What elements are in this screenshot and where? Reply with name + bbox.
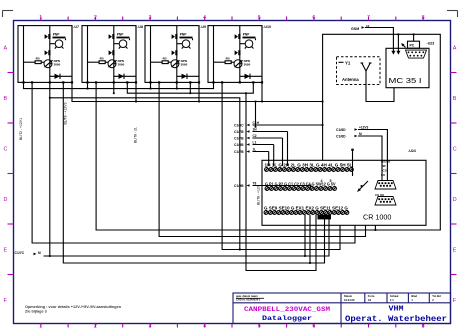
wire right rail	[261, 26, 263, 83]
datalogger U24 CR 1000	[262, 160, 426, 225]
svg-text:3090: 3090	[54, 63, 61, 67]
wire rail R1 to +12V loop	[96, 34, 440, 230]
svg-text:2: 2	[94, 324, 97, 328]
svg-text:7: 7	[367, 15, 370, 21]
sensor interface block -U7	[18, 26, 72, 83]
wire stub	[261, 82, 263, 101]
wire center rail	[176, 26, 178, 83]
transistor Q1 of -U9	[182, 40, 190, 48]
svg-text:C: C	[4, 147, 8, 153]
terminal screws row	[265, 187, 336, 191]
diode D1 of -U9	[182, 74, 188, 79]
junction node	[31, 81, 33, 83]
wire rail R5 net C1/7C	[44, 215, 330, 256]
wire rail R6	[63, 82, 324, 263]
wire stub	[113, 82, 115, 93]
connector DB9 trapezoid	[406, 50, 427, 58]
svg-text:-U10: -U10	[263, 25, 271, 29]
svg-text:D: D	[453, 197, 457, 203]
sensor interface block -U10	[208, 26, 262, 83]
svg-text:-U8: -U8	[137, 25, 143, 29]
wire stub	[189, 82, 191, 93]
svg-text:1: 1	[39, 15, 42, 21]
svg-text:-R5: -R5	[35, 57, 40, 61]
svg-text:6: 6	[312, 324, 315, 328]
wire center rail	[113, 26, 115, 83]
wire bus J2	[127, 82, 253, 93]
junction node	[158, 81, 160, 83]
wire	[50, 63, 52, 65]
title block	[233, 293, 451, 324]
junction node	[149, 81, 151, 83]
junction node	[189, 81, 191, 83]
svg-text:4: 4	[321, 179, 323, 183]
sensor interface block -U8	[82, 26, 136, 83]
svg-text:C1/7B: C1/7B	[234, 130, 244, 134]
wire	[358, 130, 387, 182]
wire left rail	[23, 26, 25, 83]
svg-text:C2: C2	[253, 134, 257, 138]
svg-text:A: A	[4, 46, 8, 52]
svg-text:1:1: 1:1	[390, 298, 394, 302]
transistor Q2 of -U7	[44, 60, 52, 68]
transistor Q2 of -U9	[171, 60, 179, 68]
transistor Q2 of -U10	[234, 60, 242, 68]
wire	[65, 38, 67, 40]
junction node	[49, 81, 51, 83]
wire drop to C1/6C input	[255, 102, 257, 127]
GSM modem U22 MC 35 I	[386, 48, 429, 87]
antenna assembly box	[337, 57, 381, 85]
wire GSM to modem	[365, 28, 393, 53]
terminal screws row	[265, 168, 354, 172]
diode D1 of -U8	[119, 74, 125, 79]
svg-text:-R5: -R5	[99, 57, 104, 61]
svg-text:gew. datum naam: gew. datum naam	[236, 294, 258, 298]
connector pin K1 of -U9	[172, 34, 178, 39]
connector pin K2 of -U7	[45, 50, 51, 55]
wire center rail	[239, 26, 241, 83]
svg-text:-U24: -U24	[408, 149, 416, 153]
wire	[192, 38, 194, 40]
svg-text:4: 4	[203, 15, 206, 21]
svg-text:PNP: PNP	[117, 32, 124, 36]
junction node	[71, 81, 73, 83]
wire stub	[135, 82, 137, 101]
svg-text:A: A	[453, 46, 457, 52]
diode D1 of -U7	[55, 74, 61, 79]
wire bus J4 antenna-loop rail	[72, 82, 323, 101]
svg-text:C1/9B: C1/9B	[234, 184, 244, 188]
junction node	[212, 81, 214, 83]
transistor Q2 of -U8	[108, 60, 116, 68]
svg-text:T8: T8	[253, 181, 257, 185]
wire +12V to modem	[397, 34, 399, 52]
svg-text:2: 2	[94, 15, 97, 21]
antenna symbol	[365, 70, 367, 85]
svg-text:3090: 3090	[244, 63, 251, 67]
svg-text:Form.: Form.	[368, 294, 375, 298]
svg-text:4: 4	[203, 324, 206, 328]
junction node	[86, 81, 88, 83]
connector pin K2 of -U9	[172, 50, 178, 55]
svg-text:BL/T2 - +12V1: BL/T2 - +12V1	[19, 118, 23, 140]
svg-text:1: 1	[39, 324, 42, 328]
svg-text:CANPBELL_230VAC_GSM: CANPBELL_230VAC_GSM	[244, 306, 330, 313]
svg-text:CS: CS	[383, 169, 387, 173]
svg-text:8: 8	[422, 15, 425, 21]
wire bus J3	[50, 98, 240, 250]
corner trim marks	[3, 11, 458, 18]
wire	[177, 63, 179, 65]
svg-text:C1/6D: C1/6D	[336, 128, 346, 132]
junction node	[176, 81, 178, 83]
svg-text:L1: L1	[253, 140, 257, 144]
svg-text:Datum: Datum	[344, 294, 353, 298]
svg-text:Schaal: Schaal	[390, 294, 399, 298]
svg-text:E: E	[453, 248, 457, 254]
wire	[50, 75, 72, 77]
power connector PWR	[318, 215, 332, 220]
junction node	[113, 81, 115, 83]
svg-text:B: B	[4, 96, 8, 102]
svg-text:5: 5	[258, 15, 261, 21]
transistor Q1 of -U7	[55, 40, 63, 48]
wire	[240, 75, 262, 77]
svg-text:Datalogger: Datalogger	[262, 315, 312, 322]
wire left rail	[87, 26, 89, 83]
wire	[177, 75, 199, 77]
svg-text:5: 5	[258, 324, 261, 328]
svg-text:Operat. Waterbeheer: Operat. Waterbeheer	[345, 314, 447, 324]
svg-text:-U7: -U7	[73, 25, 79, 29]
svg-text:PNP: PNP	[243, 32, 250, 36]
wire	[114, 75, 136, 77]
svg-text:PNP: PNP	[53, 32, 60, 36]
svg-text:G P1 G P2 G C1 C2 C3 C4 G SW12: G P1 G P2 G C1 C2 C3 C4 G SW12 G 5V	[265, 182, 336, 187]
svg-text:CR 1000: CR 1000	[363, 213, 391, 222]
wire rail to CR power A	[246, 93, 316, 270]
svg-text:G SE9 SE10 G EX1 EX2 G SE11 SE: G SE9 SE10 G EX1 EX2 G SE11 SE12 G	[264, 205, 348, 210]
svg-text:5: 5	[330, 179, 332, 183]
svg-text:C1/7B: C1/7B	[234, 136, 244, 140]
wire rail R4	[222, 82, 340, 249]
cable arrow	[351, 149, 353, 151]
cable arrow	[402, 44, 406, 48]
svg-text:BL/T8 - +12V3: BL/T8 - +12V3	[64, 102, 68, 124]
wire right rail	[71, 26, 73, 83]
svg-text:-U23: -U23	[427, 42, 435, 46]
connector pin K1 of -U8	[109, 34, 115, 39]
wire rail R3	[32, 82, 355, 243]
connector pin K2 of -U8	[109, 50, 115, 55]
svg-text:C1/6B: C1/6B	[234, 143, 244, 147]
svg-text:C: C	[453, 147, 457, 153]
svg-text:Tot.bld: Tot.bld	[432, 294, 441, 298]
svg-text:3090: 3090	[181, 63, 188, 67]
transistor Q1 of -U10	[245, 40, 253, 48]
junction node	[261, 81, 263, 83]
svg-text:-U9: -U9	[200, 25, 206, 29]
wire CR power entry 1	[374, 225, 376, 230]
svg-text:PNP: PNP	[180, 32, 187, 36]
wire right rail	[198, 26, 200, 83]
wire	[88, 61, 100, 63]
wire	[214, 61, 226, 63]
svg-text:9F: 9F	[383, 164, 387, 168]
connector CS I/O	[375, 197, 396, 206]
junction node	[198, 81, 200, 83]
wire stub	[176, 82, 178, 88]
svg-text:6: 6	[312, 15, 315, 21]
svg-text:-R5: -R5	[225, 57, 230, 61]
svg-text:D: D	[4, 197, 8, 203]
wire	[114, 63, 116, 65]
wire stub	[150, 82, 152, 88]
connector RS232 (DB9)	[375, 181, 396, 190]
svg-text:C1/7B: C1/7B	[234, 150, 244, 154]
junction node	[62, 81, 64, 83]
wire	[24, 61, 36, 63]
sensor interface block -U9	[145, 26, 199, 83]
antenna Y1	[339, 61, 344, 63]
wire DB9 to +12V loop	[413, 34, 415, 41]
svg-text:3: 3	[149, 15, 152, 21]
wire	[255, 38, 257, 40]
svg-text:-R5: -R5	[162, 57, 167, 61]
svg-text:VHM: VHM	[389, 306, 404, 314]
wire drop center rail block1	[49, 82, 51, 256]
svg-text:Y1: Y1	[345, 60, 351, 65]
connector pin K1 of -U10	[235, 34, 241, 39]
connector pin K2 of -U10	[235, 50, 241, 55]
frame zone numbers	[39, 15, 424, 328]
svg-text:C1/6C: C1/6C	[234, 123, 244, 127]
svg-text:8: 8	[422, 324, 425, 328]
junction node	[95, 81, 97, 83]
wire left rail	[213, 26, 215, 83]
svg-text:M: M	[38, 251, 41, 255]
wire left rail	[150, 26, 152, 83]
junction node	[221, 81, 223, 83]
connector pin K1 of -U7	[45, 34, 51, 39]
svg-text:C1H: C1H	[253, 121, 260, 125]
junction node	[252, 81, 254, 83]
svg-text:7: 7	[367, 324, 370, 328]
svg-text:19-04-06: 19-04-06	[344, 298, 355, 302]
wire stub	[198, 82, 200, 101]
svg-text:E: E	[4, 248, 8, 254]
svg-text:1L: 1L	[253, 147, 257, 151]
junction node	[239, 81, 241, 83]
svg-text:Opmerking : voor details +12V-: Opmerking : voor details +12V-/+5V-/0V-a…	[25, 305, 122, 309]
svg-text:C1/7C: C1/7C	[15, 251, 25, 255]
connector X1 DB9 to PC	[408, 41, 420, 48]
svg-text:B: B	[453, 96, 457, 102]
terminal screws row	[264, 211, 349, 215]
svg-text:1H: 1H	[253, 127, 258, 131]
transistor Q1 of -U8	[119, 40, 127, 48]
wire	[151, 61, 163, 63]
frame reference ticks top/bottom	[41, 17, 423, 328]
wire antenna feed	[366, 85, 394, 102]
junction node	[126, 81, 128, 83]
svg-text:1H 1L G 2H 2L G 3H 3L G 4H 4L: 1H 1L G 2H 2L G 3H 3L G 4H 4L G 5H 5L	[265, 163, 353, 168]
svg-text:BL/T8 - 2L: BL/T8 - 2L	[134, 127, 138, 143]
svg-text:C1/6D: C1/6D	[336, 135, 346, 139]
svg-text:BL/T8 - +12V: BL/T8 - +12V	[257, 184, 261, 205]
wire	[129, 38, 131, 40]
svg-text:GSM: GSM	[351, 27, 359, 31]
junction node	[22, 81, 24, 83]
junction node	[135, 81, 137, 83]
wire center rail	[49, 26, 51, 83]
svg-text:PC: PC	[410, 44, 415, 48]
wire bus J1	[24, 82, 214, 88]
svg-text:Antenna: Antenna	[342, 77, 359, 82]
wire	[240, 63, 242, 65]
svg-text:Zie bijlage 3: Zie bijlage 3	[25, 310, 47, 314]
wire right rail	[135, 26, 137, 83]
wire stub	[87, 82, 89, 88]
frame zone letters	[4, 46, 457, 305]
svg-text:3090: 3090	[118, 63, 125, 67]
svg-text:A3: A3	[368, 298, 372, 302]
svg-text:MC 35 I: MC 35 I	[389, 78, 422, 85]
svg-text:Blad: Blad	[411, 294, 417, 298]
wire	[358, 136, 382, 181]
wire rail R2	[159, 82, 365, 236]
diode D1 of -U10	[245, 74, 251, 79]
svg-text:3: 3	[149, 324, 152, 328]
